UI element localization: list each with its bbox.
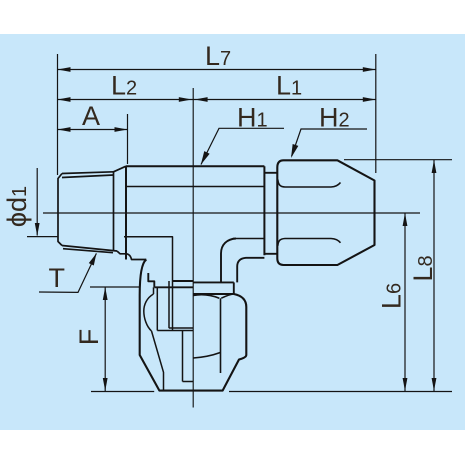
svg-text:A: A [82, 101, 100, 131]
svg-text:F: F [74, 329, 104, 346]
svg-text:T: T [49, 263, 66, 293]
